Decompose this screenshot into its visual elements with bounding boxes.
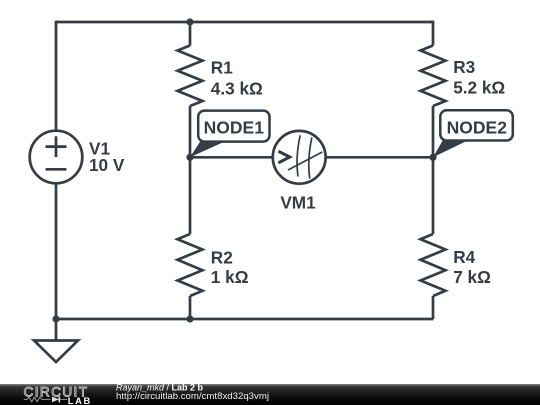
NODE1 callout box bbox=[198, 111, 269, 142]
ground symbol bbox=[34, 319, 78, 362]
NODE1 callout pointer bbox=[190, 141, 226, 157]
svg-text:1 kΩ: 1 kΩ bbox=[211, 267, 249, 287]
footer logo resistor squiggle bbox=[24, 397, 51, 402]
wire R2 bottom lead bbox=[189, 296, 192, 319]
footer logo diode bbox=[52, 397, 59, 403]
wire R2 top lead bbox=[189, 157, 192, 234]
wire R1 top lead bbox=[189, 22, 192, 46]
svg-text:5.2 kΩ: 5.2 kΩ bbox=[453, 78, 505, 98]
resistor R2 bbox=[178, 234, 203, 296]
resistor R1 bbox=[178, 46, 203, 107]
footer bar bbox=[0, 384, 540, 405]
NODE2 callout pointer bbox=[433, 140, 469, 157]
svg-text:R1: R1 bbox=[211, 57, 233, 77]
wire bottom rail bbox=[56, 318, 433, 321]
wire R1 bottom lead bbox=[189, 106, 192, 157]
resistor R4 bbox=[421, 234, 446, 296]
svg-text:R2: R2 bbox=[211, 247, 233, 267]
node junction dot top (R1 top) bbox=[186, 18, 193, 25]
ground junction dot bbox=[52, 315, 59, 322]
voltmeter VM1 bbox=[273, 131, 326, 184]
wire R3 bottom lead bbox=[432, 106, 435, 157]
wire R4 top lead bbox=[432, 157, 435, 234]
svg-text:NODE2: NODE2 bbox=[447, 117, 508, 137]
svg-text:R3: R3 bbox=[453, 57, 475, 77]
wire V1 bottom lead bbox=[55, 183, 58, 319]
svg-text:NODE1: NODE1 bbox=[204, 118, 265, 138]
wire middle left (node A to voltmeter) bbox=[190, 156, 273, 159]
wire R4 bottom lead bbox=[432, 296, 435, 319]
svg-text:10 V: 10 V bbox=[89, 155, 125, 175]
svg-text:VM1: VM1 bbox=[280, 192, 316, 212]
wire left top lead of V1 bbox=[55, 21, 58, 131]
node junction dot R2 bottom bbox=[186, 315, 193, 322]
wire R3 top lead bbox=[432, 21, 435, 46]
node A junction dot (NODE1) bbox=[186, 154, 193, 161]
resistor R3 bbox=[421, 46, 446, 107]
svg-text:4.3 kΩ: 4.3 kΩ bbox=[211, 78, 263, 98]
svg-text:7 kΩ: 7 kΩ bbox=[453, 267, 491, 287]
wire top rail bbox=[56, 21, 433, 24]
svg-text:LAB: LAB bbox=[68, 396, 92, 405]
svg-text:R4: R4 bbox=[453, 247, 475, 267]
voltage source V1 bbox=[30, 131, 83, 184]
NODE2 callout box bbox=[440, 110, 513, 140]
svg-text:http://circuitlab.com/cmt8xd32: http://circuitlab.com/cmt8xd32q3vmj bbox=[116, 391, 269, 402]
wire middle right (voltmeter to node B) bbox=[326, 156, 434, 159]
node B junction dot (NODE2) bbox=[429, 154, 436, 161]
